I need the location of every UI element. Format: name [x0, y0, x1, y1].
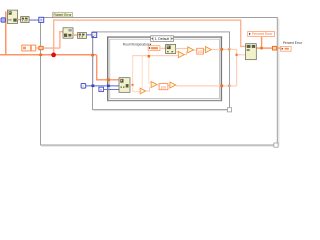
numeric constant cluster outside loop (left middle) [22, 45, 36, 51]
tunnel dot on case right edge (lower) [220, 85, 223, 88]
tunnel dot on case left edge (orange) [107, 78, 110, 81]
local variable RoomTemperature (small orange box) [148, 46, 160, 51]
free label "Robert Error" [53, 12, 73, 17]
subVI icon U2 [21, 17, 29, 23]
indicator Percent Error outside loop [281, 41, 303, 51]
blue tunnel dot on R2 edge [92, 85, 95, 88]
structure R1: outer gray rectangle (loop frame) [41, 18, 280, 147]
wire: T1 out up to T2 lower input [185, 51, 188, 55]
wire: local to icon U7 [160, 48, 166, 49]
local variable Percent Error (orange box top right) [248, 32, 275, 37]
numeric constant 100 (upper) [197, 48, 204, 54]
lower row: triangle T4 [140, 88, 146, 94]
junction dot on y55 net [148, 55, 151, 58]
wire: T6 out to right, exits case and R2, up to U5 [176, 85, 237, 86]
svg-text:Percent Error: Percent Error [252, 32, 273, 36]
wire: from U5 output to tunnel, with branch up to local [257, 37, 281, 49]
svg-text:1, Default: 1, Default [155, 37, 170, 41]
subVI icon U7 (in case, upper row) [166, 44, 176, 53]
terminal A: blue control terminal at left edge [1, 18, 5, 22]
svg-text:RoomTemperature▾: RoomTemperature▾ [123, 42, 152, 46]
terminal B: blue square on R1 top-left corner [39, 17, 44, 22]
subVI icon U1 (top-left big icon) [7, 10, 17, 23]
subVI icon U6 (in case, lower row) [119, 78, 130, 93]
wire: T5 out over constant to T6 [158, 85, 170, 86]
wire W1: orange top wire inside loop [53, 19, 246, 55]
svg-text:Robert Error: Robert Error [54, 13, 73, 17]
white resize handle R1 bottom-right corner [274, 143, 278, 147]
blue constant n inside R2 [99, 87, 104, 92]
white resize handle R2 bottom-right corner [227, 108, 231, 112]
wire: U7 lower-right stub to T1 [176, 51, 179, 52]
wire: blue from S1 through R2 tunnel to icon U6 [86, 85, 119, 86]
terminal on R2 top-left corner [92, 32, 97, 37]
triangle node T2 [188, 47, 194, 53]
tunnel (ring) on R1 left edge [39, 46, 43, 49]
junction dot under local [260, 47, 263, 50]
red breakpoint dot on wire [51, 53, 56, 58]
subVI icon U5 (right, percent error VI) [246, 44, 257, 60]
triangle T6 [170, 82, 176, 88]
pale wire net y=55 with drops (case interior) [132, 51, 178, 92]
tunnel dot on R1 left edge for long wire [39, 54, 42, 57]
case selector label "1, Default" [151, 36, 174, 42]
wire: long horizontal DBL wire from left edge [0, 54, 97, 56]
triangle node T3 [205, 47, 211, 53]
wire: T2 out over constant box to T3 [194, 49, 205, 50]
wire: descends inside R2 and runs to case tunnel [96, 55, 120, 81]
subVI icon U3 [63, 28, 73, 38]
tunnel dot on case right edge (upper) [220, 48, 223, 51]
svg-text:n: n [100, 88, 102, 92]
wire: from constant to loop tunnel [36, 47, 60, 48]
wire: blue from n to icon U6 lower pin [104, 89, 119, 90]
wire: faint blue along R2 edge down [93, 35, 94, 85]
svg-text:100: 100 [197, 50, 203, 54]
wire: U7 out to T2 (over T1) [176, 48, 188, 49]
junction dot at icon U5 lower stub [236, 54, 238, 56]
blue constant square S1 outside R2 [81, 84, 86, 89]
tunnel (ring) on R1 right edge [273, 46, 277, 50]
wire: T4 out up to T5 [146, 87, 150, 92]
icon U6 output stub to V-a [130, 84, 133, 86]
tunnel dot on R2 right edge (upper) [228, 48, 231, 50]
structure R2: inner gray rectangle [93, 32, 231, 111]
wire: up into icon U3 [59, 31, 63, 49]
wire: orange stub U1 to U2 [18, 19, 21, 20]
tunnel dot where long wire enters R2 [91, 54, 94, 57]
svg-text:100: 100 [161, 86, 167, 90]
wire: U3 to U4 [73, 34, 78, 35]
tunnel dot on R2 right edge (lower) [228, 85, 231, 87]
blue tunnel dot on case edge [107, 85, 110, 87]
svg-text:Percent Error: Percent Error [283, 41, 303, 45]
wire: blue U4 to R2 corner terminal [87, 34, 92, 35]
wire: T3 out exits case and R2, to icon U5 lower pin [212, 49, 246, 86]
subVI icon U4 [78, 33, 87, 39]
triangle T5 [151, 82, 157, 88]
case structure border (double dark line) [107, 36, 222, 101]
triangle node T1 [178, 52, 184, 58]
wire: blue from U2 to loop corner terminal B [29, 20, 39, 21]
numeric constant 100 (lower) [159, 84, 168, 90]
wire: vertical from icon U1 down to long wire [5, 12, 7, 56]
